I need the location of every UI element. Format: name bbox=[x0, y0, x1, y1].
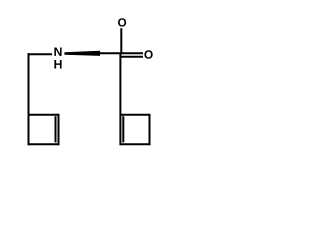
ring: right cyclobutene bottom edge bbox=[120, 143, 151, 145]
wire: left vertical chain bond + left ring left edge bbox=[28, 53, 30, 145]
atom label N bbox=[54, 47, 61, 55]
ring: right cyclobutene top edge bbox=[120, 114, 150, 116]
ring: left cyclobutene right edge bbox=[58, 114, 60, 145]
bond: right ring inner double-bond line bbox=[122, 116, 124, 142]
bond: bold wedge from N to carbon bbox=[64, 51, 100, 56]
ring: left cyclobutene top edge bbox=[28, 114, 59, 116]
wire: horizontal bond from corner to N bbox=[28, 53, 53, 55]
atom label O (top) bbox=[118, 18, 126, 26]
bond: C=O double bond lower line bbox=[120, 56, 143, 58]
atom label H (on N) bbox=[54, 60, 61, 68]
ring: left cyclobutene bottom edge bbox=[28, 143, 60, 145]
bond: C=O double bond upper line bbox=[120, 52, 143, 54]
atom label O (right) bbox=[144, 50, 152, 59]
bond: left ring inner double-bond line bbox=[55, 116, 57, 142]
ring: right cyclobutene right edge bbox=[149, 114, 151, 145]
wire: thin bond from wedge carbon to central carbon bbox=[100, 52, 122, 54]
wire: vertical bond central carbon up to top O bbox=[120, 28, 122, 54]
wire: right vertical chain bond + right ring left edge bbox=[119, 53, 121, 145]
